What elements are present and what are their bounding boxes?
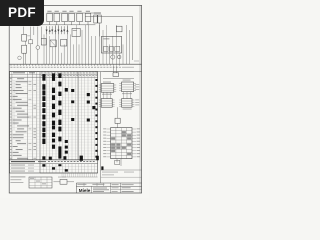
connector block X3 (99, 99, 115, 108)
valve Y1 circle (117, 55, 121, 59)
chart black bars column B (49, 73, 55, 159)
secondary band grid (10, 164, 98, 177)
chart black marks column D (65, 88, 68, 154)
pump motor M2 circle (111, 55, 115, 59)
chart black bars column C (58, 73, 61, 158)
harness labels left (103, 128, 106, 157)
diode cluster D2 (51, 26, 56, 34)
wire: top horizontal bus (47, 12, 101, 14)
top row component boxes (timer contacts) (47, 11, 91, 25)
drawing frame border (9, 5, 141, 193)
component box B2 (left lower) (22, 45, 27, 53)
main harness connector grid (111, 128, 132, 159)
terminal bus line (10, 63, 142, 65)
legend notes text (10, 176, 25, 183)
legend mini table (29, 177, 52, 188)
wires between connector block rows (103, 92, 130, 99)
table vertical grid (12, 72, 95, 173)
secondary table band frame (10, 160, 98, 173)
right area small text rows (102, 172, 134, 176)
wire stub x33.8 (33, 27, 35, 35)
page background (0, 0, 149, 198)
right area divider lines (101, 170, 142, 177)
lamp H1 small box top (113, 73, 119, 77)
harness stub wires left (107, 129, 111, 157)
table header band lines (10, 74, 98, 77)
secondary band left text (11, 165, 34, 172)
component box R3 (61, 39, 67, 46)
connector block X2 (119, 80, 136, 92)
table horizontal grid (10, 80, 98, 160)
title block number cells text (112, 187, 134, 191)
wire x41.3 (40, 27, 42, 39)
switch S1 circle on wire x37.8 (36, 27, 40, 65)
wire: B1-B2 left leads (23, 27, 25, 65)
diode cluster D4 (63, 26, 68, 34)
component box R2 (50, 40, 56, 47)
contact switch S2 on wire x30.5 (29, 27, 33, 65)
wire: vertical x99 to relay box (98, 23, 100, 36)
chart black marks column F (63, 93, 95, 159)
capacitor block C1 (top right narrow boxes) (94, 13, 101, 23)
wire: mid horizontal rail (12, 24, 95, 26)
ground symbol below harness (115, 159, 121, 166)
secondary band black marks (42, 156, 103, 172)
heater box E1 (big right block) (101, 36, 121, 53)
pressure switch circle (18, 56, 22, 60)
wire: right vertical drop from top rail (132, 17, 134, 60)
harness labels right (137, 128, 140, 157)
chart black marks column E (71, 89, 74, 121)
title block description text (93, 188, 109, 192)
component box R1 (41, 38, 46, 45)
diode cluster D3 (57, 26, 62, 34)
wires: vertical drops to terminal bus (44, 25, 129, 64)
chart dotted marks right edge column (95, 79, 97, 158)
chart black bars column A (42, 74, 45, 160)
connector block X4 (119, 99, 134, 110)
table row number column text (10, 78, 12, 159)
interference suppressor box (115, 107, 120, 127)
thermostat box F1 (116, 26, 122, 32)
legend component symbol (53, 177, 74, 185)
program chart table frame (10, 72, 98, 160)
terminal strip tick marks (11, 64, 120, 66)
wire: horizontal connector feed (103, 78, 134, 80)
relay K1 box (72, 28, 80, 36)
title block header texts (77, 184, 133, 185)
table header text (13, 72, 97, 76)
table program text column (13, 78, 36, 159)
program tree bracket line (13, 80, 15, 130)
secondary band header text (11, 161, 95, 162)
title block frame (76, 183, 141, 193)
terminal label row (10, 66, 134, 69)
component box B1 (left) (22, 34, 31, 41)
svg-text:Miele: Miele (79, 188, 91, 193)
divider line table/connector (100, 72, 102, 183)
diode cluster D1 (46, 26, 51, 34)
connector right margin labels (134, 61, 139, 106)
wires into connector area (103, 66, 134, 73)
harness stub wires right (132, 129, 136, 157)
schematic/table divider line (10, 71, 142, 73)
connector block X1 (99, 82, 116, 93)
connector labels row (102, 93, 132, 95)
wire: top-right horizontal (85, 16, 133, 18)
